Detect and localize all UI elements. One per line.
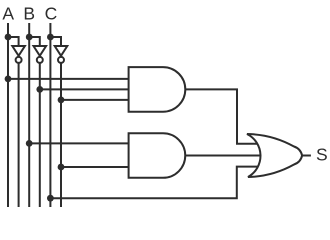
junction on C at inverter tap [47,34,54,41]
inverter U1 triangle [12,46,25,56]
inverter U3 bubble [58,57,64,63]
wire: tap from C to inverter U3 [50,37,61,47]
wire: input line C vertical [49,23,51,207]
wire: NOT-A vertical line [18,63,20,207]
junction on B at inverter tap [26,34,33,41]
junction on A feeding AND1 [5,76,12,83]
wire: NOT-C into AND2 bottom input [61,166,129,168]
wire: NOT-C into AND1 bottom input [61,99,129,101]
wire: input line B vertical [28,23,30,207]
wire: B into AND2 top input [29,142,128,144]
AND gate U4 (top) [129,67,186,112]
wire: NOT-B into AND1 middle input [40,88,129,90]
wire: tap from B to inverter U2 [29,37,40,47]
OR gate U6 [247,134,302,177]
junction on C feeding OR bottom input [47,195,54,202]
wire: AND1 output elbow to OR top input [185,89,262,143]
wire: input line A vertical [7,23,9,207]
AND gate U5 (bottom) [129,133,186,178]
svg-text:S: S [316,144,328,164]
wire: NOT-C vertical line [60,63,62,207]
wire: OR output to S [303,155,311,157]
wire: tap from A to inverter U1 [8,37,19,47]
wire: A into AND1 top input [8,78,129,80]
junction on A at inverter tap [5,34,12,41]
inverter U1 bubble [16,57,22,63]
svg-text:C: C [45,3,58,23]
svg-text:A: A [2,3,14,23]
inverter U3 triangle [55,46,68,56]
junction on NOT-B feeding AND1 [36,86,43,93]
inverter U2 triangle [34,46,47,56]
wire: C bottom run to OR bottom input [50,167,265,199]
wire: NOT-B vertical line [39,63,41,207]
svg-text:B: B [23,3,35,23]
junction on B feeding AND2 [26,140,33,147]
inverter U2 bubble [37,57,43,63]
wire: AND2 output to OR middle input [185,155,260,157]
junction on NOT-C feeding AND1 [58,97,65,104]
junction on NOT-C feeding AND2 [58,164,65,171]
